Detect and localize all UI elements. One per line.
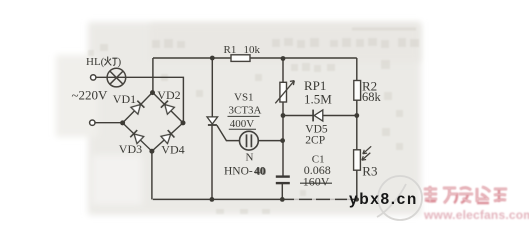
svg-text:VS1: VS1	[234, 91, 254, 103]
glyph deng (fire radical + ding)	[104, 57, 117, 66]
svg-text:R3: R3	[362, 163, 377, 178]
diode VD5	[313, 110, 323, 122]
diode VD4	[161, 130, 175, 144]
neon lamp N	[240, 131, 259, 150]
node bridge AC right vertex	[181, 120, 186, 125]
svg-text:VD1: VD1	[113, 92, 136, 106]
svg-text:68k: 68k	[362, 90, 382, 104]
diode VD2	[161, 101, 175, 115]
watermark elecfans red glyphs	[424, 186, 507, 203]
wire top bus	[153, 57, 357, 59]
resistor R1	[231, 55, 250, 62]
lamp HL	[107, 68, 126, 87]
scan fading on bottom bus	[294, 198, 351, 201]
svg-text:160V: 160V	[303, 174, 330, 188]
svg-text:): )	[118, 56, 122, 68]
junction VD5 anode / R2 branch	[354, 113, 359, 118]
svg-text:ybx8.cn: ybx8.cn	[349, 191, 418, 208]
diode VD3	[130, 130, 144, 144]
photoresistor R3	[354, 146, 372, 170]
svg-text:www.elecfans.com: www.elecfans.com	[423, 208, 529, 222]
svg-text:1.5M: 1.5M	[304, 91, 332, 106]
wire AC lower terminal to bridge left	[95, 122, 123, 124]
wire RP1 branch upper	[282, 58, 284, 82]
svg-text:VD2: VD2	[157, 88, 180, 102]
faint bleed-through text rows	[88, 28, 419, 215]
junction bottom bus / C1	[280, 197, 285, 202]
wire VD5 line	[283, 115, 357, 117]
scanned paper background	[88, 22, 421, 215]
node bridge DC+ (top vertex)	[150, 90, 155, 95]
wire bottom bus	[153, 198, 357, 200]
wire neon to RP1 branch	[258, 140, 282, 142]
wire C1 to bottom bus	[281, 184, 283, 200]
svg-text:R1: R1	[224, 44, 237, 56]
potentiometer RP1	[275, 81, 294, 104]
svg-text:400V: 400V	[230, 118, 255, 130]
svg-text:HL(: HL(	[86, 56, 105, 68]
node bridge AC left vertex	[120, 120, 125, 125]
wire gate to neon	[217, 125, 240, 140]
svg-text:2CP: 2CP	[305, 135, 325, 147]
svg-text:VD3: VD3	[119, 142, 142, 156]
svg-text:3CT3A: 3CT3A	[229, 105, 262, 117]
wire R2 branch	[356, 58, 358, 199]
wire thyristor cathode	[211, 126, 213, 200]
junction VD5 cathode / RP1 branch	[281, 113, 286, 118]
terminal upper	[91, 75, 96, 80]
bridge edges	[123, 92, 183, 151]
svg-text:VD5: VD5	[305, 123, 328, 135]
svg-text:10k: 10k	[244, 44, 261, 56]
junction bottom bus / R3	[355, 197, 359, 201]
svg-text:40: 40	[255, 166, 267, 178]
wire RP1 to C1	[282, 102, 284, 176]
wire bridge top to bus	[152, 58, 154, 92]
thyristor VS1	[207, 117, 218, 125]
svg-text:HNO-: HNO-	[224, 165, 253, 177]
resistor R2	[354, 81, 361, 101]
svg-text:N: N	[246, 152, 254, 164]
ybx8 logo circle	[377, 176, 422, 220]
junction neon lead / C1 branch	[280, 138, 285, 143]
capacitor C1	[276, 177, 290, 184]
diode VD1	[131, 101, 145, 115]
wire bridge bottom down	[151, 151, 153, 199]
svg-text:~220V: ~220V	[72, 87, 109, 102]
junction top bus / VS1 anode	[210, 56, 215, 61]
wire lamp line	[96, 77, 183, 123]
junction top bus / RP1 branch	[281, 56, 286, 61]
junction bottom bus / VS1 cathode	[210, 197, 215, 202]
terminal lower	[90, 120, 95, 125]
wire thyristor anode	[211, 58, 213, 117]
svg-text:VD4: VD4	[161, 143, 184, 157]
node bridge DC- (bottom vertex)	[149, 149, 154, 154]
